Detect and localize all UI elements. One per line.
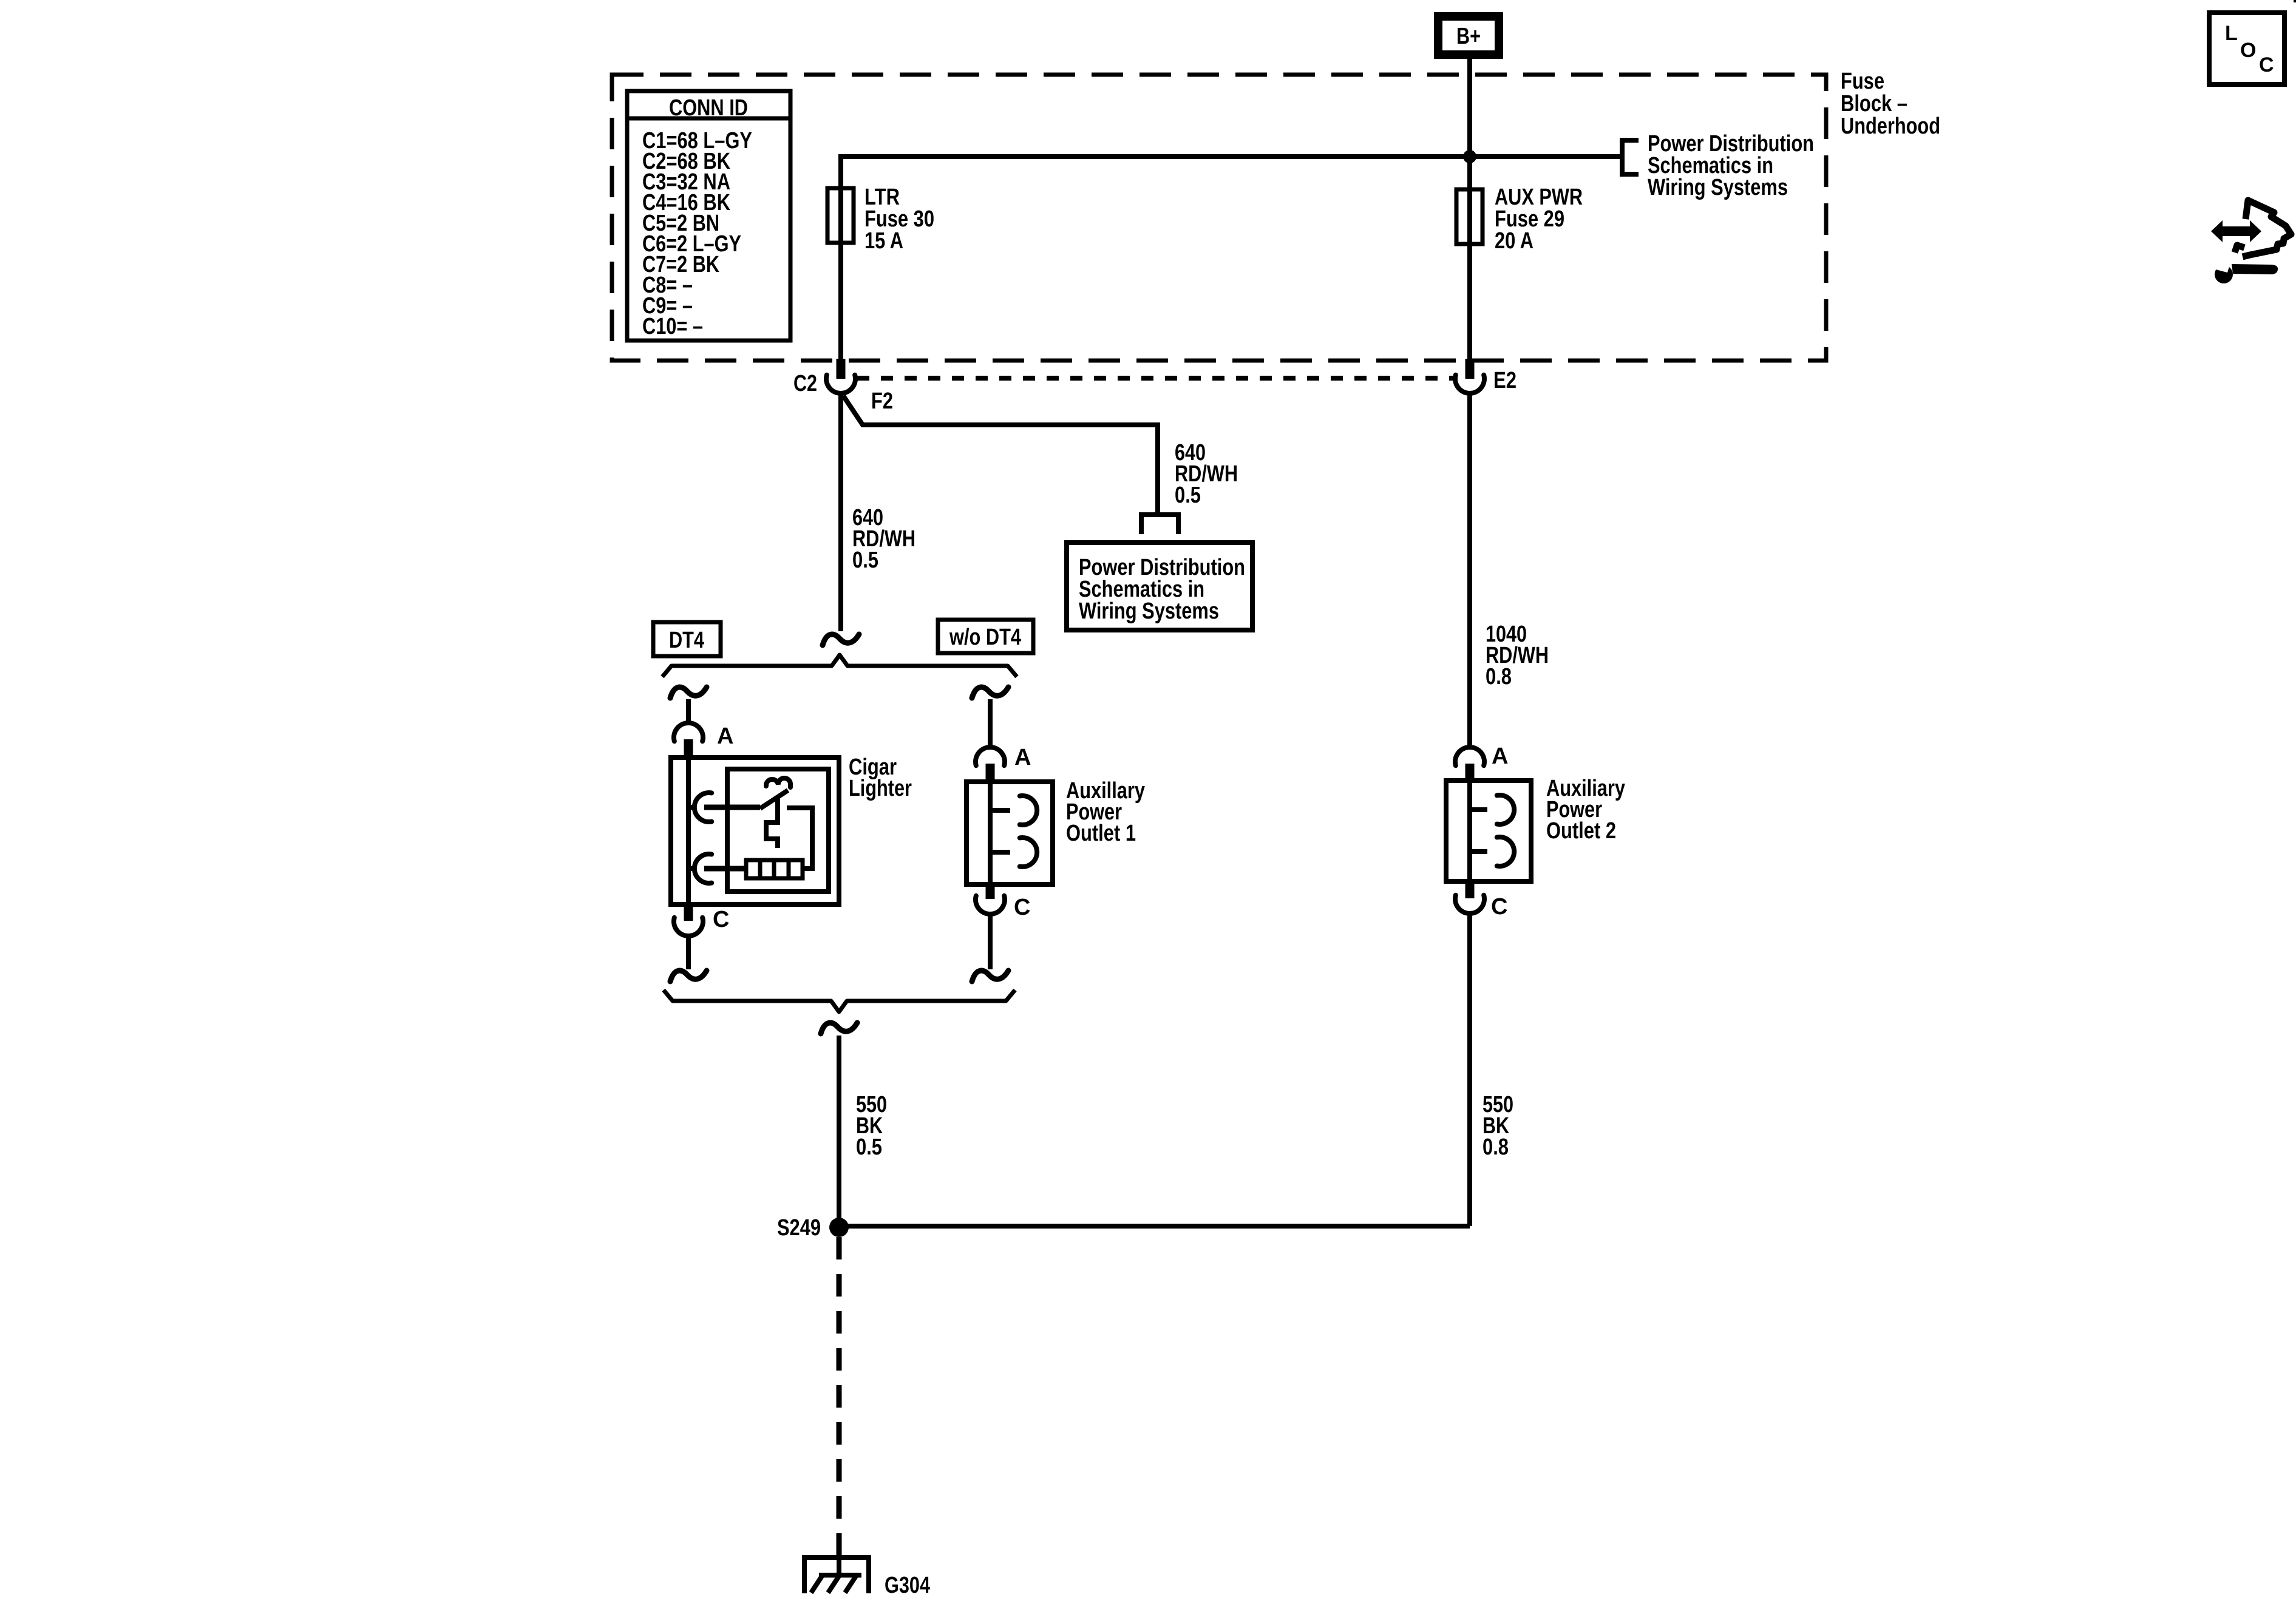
cigar lighter terminal cup upper	[688, 805, 696, 810]
svg-text:C10= –: C10= –	[642, 314, 703, 339]
cigar lighter switch contact tick	[775, 797, 780, 809]
ground G304 symbol	[803, 1555, 870, 1560]
connector C2 cup	[826, 375, 855, 393]
reference box Power Distribution Schematics in Wiring Systems	[1067, 543, 1252, 630]
service information icon: double arrow	[2211, 220, 2261, 242]
svg-text:Outlet 1: Outlet 1	[1066, 821, 1136, 846]
pin A connector (outlet 2)	[1455, 747, 1484, 765]
svg-text:0.8: 0.8	[1483, 1134, 1509, 1160]
cigar lighter switch to heater wire	[787, 808, 812, 869]
wire 1040 RD/WH 0.8 from E2 to outlet 2	[1467, 392, 1472, 747]
wire w/o DT4 branch to outlet 1	[972, 687, 1008, 698]
svg-text:F2: F2	[871, 388, 893, 414]
fuse block underhood dashed outline	[612, 75, 1826, 361]
cigar lighter terminal cup lower	[688, 866, 696, 871]
svg-text:Lighter: Lighter	[849, 776, 912, 801]
svg-text:C: C	[2259, 53, 2274, 76]
outlet 1 internal wire	[988, 784, 993, 882]
wire outlet 1 to merge brace	[988, 914, 993, 969]
connector E2 cup	[1455, 375, 1484, 393]
cigar lighter switch blade	[760, 790, 788, 808]
svg-text:C2: C2	[793, 371, 817, 396]
cigar lighter element wire upper	[704, 805, 760, 810]
connector C2 terminal stub	[837, 359, 846, 379]
svg-text:Underhood: Underhood	[1841, 114, 1940, 139]
wire F2 branch from C2	[843, 396, 1158, 512]
svg-text:0.8: 0.8	[1486, 664, 1512, 690]
outlet 2 internal wire	[1467, 783, 1472, 880]
auxiliary power outlet 2 housing	[1446, 781, 1531, 881]
svg-text:A: A	[717, 724, 733, 749]
svg-text:C: C	[713, 907, 729, 932]
svg-text:0.5: 0.5	[856, 1134, 882, 1160]
service information icon: dog head outline	[2243, 200, 2291, 257]
wire break squiggle above options brace	[823, 634, 859, 645]
svg-text:L: L	[2225, 22, 2238, 45]
cigar lighter housing	[671, 758, 839, 904]
svg-text:A: A	[1492, 744, 1508, 769]
wire LTR fuse feed down to C2	[838, 157, 843, 361]
options split brace (top)	[662, 655, 1017, 677]
connector E2 terminal stub	[1466, 359, 1475, 379]
wire 640 RD/WH 0.5 from C2 to options brace	[838, 392, 843, 631]
svg-text:20 A: 20 A	[1495, 228, 1533, 254]
power feed B+ terminal box	[1438, 16, 1499, 55]
svg-text:Wiring Systems: Wiring Systems	[1079, 598, 1219, 624]
pin C connector (cigar lighter)	[684, 903, 693, 921]
splice S249	[829, 1218, 849, 1237]
pin C connector (outlet 1)	[986, 882, 995, 899]
svg-text:Wiring Systems: Wiring Systems	[1648, 175, 1788, 200]
wire S249 to ground G304 (dashed)	[837, 1237, 842, 1555]
options merge brace (bottom)	[664, 990, 1015, 1012]
wire B+ feed down to Fuse 29	[1467, 59, 1472, 361]
svg-text:DT4: DT4	[669, 628, 704, 653]
connector ID table CONN ID	[627, 91, 790, 341]
svg-text:0.5: 0.5	[1175, 483, 1201, 508]
svg-text:Outlet 2: Outlet 2	[1546, 818, 1616, 844]
auxiliary power outlet 1 housing	[966, 782, 1053, 884]
svg-text:Fuse: Fuse	[1841, 69, 1884, 94]
outlet 1 upper contact	[990, 808, 1010, 813]
cigar lighter bimetal symbol	[766, 778, 790, 787]
pointer bracket to Power Distribution Schematics	[1622, 140, 1639, 174]
svg-text:C: C	[1491, 894, 1507, 920]
svg-text:Block –: Block –	[1841, 91, 1907, 117]
pin C connector (outlet 2)	[1466, 880, 1475, 898]
svg-text:15 A: 15 A	[864, 228, 903, 254]
wire 550 BK 0.8 outlet 2 down to S249 run	[1467, 914, 1472, 1226]
outlet 2 upper contact	[1470, 807, 1487, 812]
pin A connector (outlet 1)	[976, 747, 1005, 765]
cigar lighter heater coil box	[746, 860, 803, 878]
svg-text:w/o DT4: w/o DT4	[949, 625, 1021, 650]
wire cigar lighter to merge brace	[686, 936, 691, 969]
locator reference box LOC	[2209, 13, 2284, 84]
wire DT4 branch to cigar lighter	[670, 687, 707, 698]
option tag DT4	[653, 622, 721, 656]
svg-text:O: O	[2240, 39, 2256, 62]
pointer bracket into Power Distribution reference box	[1141, 515, 1178, 534]
cigar lighter internal feed wire	[686, 760, 691, 903]
service information icon: wrench	[2232, 264, 2278, 274]
wire 550 BK 0.8 horizontal run to S249	[839, 1224, 1470, 1229]
page corner tick	[2294, 0, 2296, 2]
cigar lighter inner element box	[727, 769, 829, 892]
junction of B+ feed and bus	[1463, 150, 1476, 163]
wire fuse bus from LTR to schematics pointer	[838, 154, 1620, 159]
svg-text:CONN ID: CONN ID	[669, 95, 748, 121]
svg-text:S249: S249	[777, 1215, 821, 1241]
outlet 1 lower contact	[990, 850, 1010, 855]
svg-text:B+: B+	[1456, 24, 1481, 49]
svg-text:C: C	[1014, 895, 1030, 920]
in-line harness dotted line C2 to E2	[857, 376, 1453, 381]
svg-text:0.5: 0.5	[852, 547, 878, 573]
svg-text:G304: G304	[885, 1573, 930, 1598]
fuse F30 LTR	[827, 188, 854, 243]
svg-text:A: A	[1014, 745, 1031, 770]
cigar lighter element jog wire	[766, 809, 778, 848]
wire 550 BK 0.5 brace to S249	[837, 1036, 841, 1226]
wire break squiggle below merge brace	[821, 1023, 857, 1034]
outlet 2 lower contact	[1470, 849, 1487, 854]
svg-text:E2: E2	[1493, 368, 1517, 393]
option tag w/o DT4	[938, 620, 1033, 653]
service information icon: dog jaw stroke	[2235, 245, 2244, 253]
pin A connector (cigar lighter)	[674, 723, 703, 741]
fuse F29 AUX PWR	[1456, 189, 1483, 244]
